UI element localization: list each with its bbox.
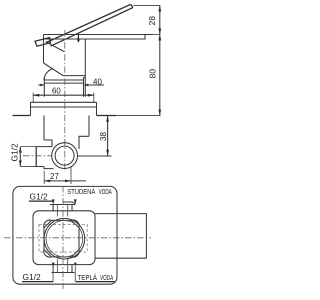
G1/2 top underline leader [29, 200, 53, 202]
lever horizontal phantom bottom line with tip [44, 35, 146, 40]
outlet inner circle [55, 146, 74, 165]
dim 38 line [107, 116, 109, 156]
extension line from lever tip [134, 5, 161, 7]
dim line right 28-80 [159, 6, 161, 116]
corner petal top-left [44, 220, 52, 228]
TEPLA arrow [74, 263, 77, 267]
wall line [13, 115, 117, 117]
bowl bottom edge [63, 75, 85, 77]
TEPLA leader vertical [74, 266, 76, 281]
valve body left edge [43, 116, 45, 141]
top port inner walls [57, 205, 67, 217]
dim 27 line [44, 180, 86, 182]
svg-text:40: 40 [93, 77, 102, 86]
svg-text:60: 60 [52, 87, 61, 96]
STUDENA leader [63, 202, 75, 204]
valve body right edge [88, 116, 90, 137]
svg-text:STUDENÁ: STUDENÁ [67, 187, 95, 196]
inlet port face [35, 146, 37, 167]
dim 40 line left tail and arrow [38, 84, 44, 86]
valve body right step [79, 136, 89, 149]
dim 40 line right tail and arrow [84, 84, 104, 86]
outlet block [95, 214, 146, 259]
dim 28-80 arrows [158, 6, 161, 12]
outer wall plate [13, 186, 117, 284]
bowl right step [84, 76, 86, 78]
svg-text:38: 38 [99, 132, 108, 141]
dim 27 extension lines [44, 167, 71, 184]
inlet port boss [37, 147, 53, 167]
dim 60 line [33, 94, 94, 96]
svg-text:G1/2: G1/2 [30, 191, 48, 201]
svg-text:27: 27 [50, 172, 59, 181]
lever shank into body [46, 42, 64, 52]
flange side extension lines [44, 77, 85, 96]
small arrow on cap [77, 35, 79, 40]
lever tail end quad [35, 38, 51, 47]
svg-text:28: 28 [147, 16, 157, 26]
escutcheon plate side view [31, 102, 97, 115]
corner petal top-right [72, 220, 80, 228]
TEPLA underline leader [76, 281, 115, 283]
dim 60 arrows [33, 94, 39, 97]
bottom port outer walls [53, 265, 72, 273]
G1/2 bottom leader vertical [52, 266, 54, 281]
bottom port inner walls [57, 259, 67, 273]
G1/2 top arrow [52, 199, 55, 204]
handle body left edge [43, 35, 45, 64]
G1/2 bottom arrow [52, 263, 55, 267]
centerline horizontal through port [23, 155, 51, 157]
svg-text:VODA: VODA [99, 189, 112, 196]
lever tilted lower edge [51, 8, 134, 47]
svg-text:80: 80 [148, 69, 158, 79]
svg-text:G1/2: G1/2 [9, 143, 19, 161]
corner petal bottom-right [72, 250, 80, 258]
valve inner circle front [46, 220, 83, 257]
svg-text:TEPLÁ: TEPLÁ [78, 273, 98, 282]
bottom port face [51, 272, 74, 274]
G1/2 bottom underline leader [22, 281, 53, 283]
corner petal bottom-left [44, 250, 52, 258]
valve outer circle front [44, 218, 85, 259]
outlet outer circle [52, 143, 78, 169]
hidden square dashed [39, 225, 87, 253]
dim 60 extension lines [33, 93, 94, 103]
lever tilted tip face [131, 4, 133, 7]
dim 27 arrows [44, 180, 50, 183]
lever handle tilted upper edge [46, 4, 131, 42]
dim G1/2 line [19, 147, 21, 167]
svg-text:G1/2: G1/2 [23, 272, 41, 282]
wall extension to dim [116, 115, 161, 117]
flange edge lines [44, 80, 83, 83]
bowl left arc [44, 68, 53, 80]
dim G1/2 arrows [19, 147, 22, 153]
centerline horizontal bottom view [4, 237, 151, 239]
housing chamfered octagon [44, 220, 79, 257]
valve body left step [44, 140, 52, 147]
top port outer walls [53, 205, 72, 211]
top port face [50, 204, 76, 206]
extension line right of circle [78, 155, 112, 157]
handle body right edge [84, 39, 86, 77]
dim G1/2 extension stubs [20, 147, 36, 167]
handle body chamfer [44, 63, 64, 76]
dim 38 arrows [106, 116, 109, 122]
STUDENA arrow [74, 199, 77, 204]
valve body lower left [44, 167, 54, 169]
centerline vertical bottom view [62, 186, 64, 289]
inner plate [33, 211, 95, 265]
centerline vertical side view [64, 30, 66, 172]
lever horizontal phantom top line / cap top [44, 34, 154, 36]
